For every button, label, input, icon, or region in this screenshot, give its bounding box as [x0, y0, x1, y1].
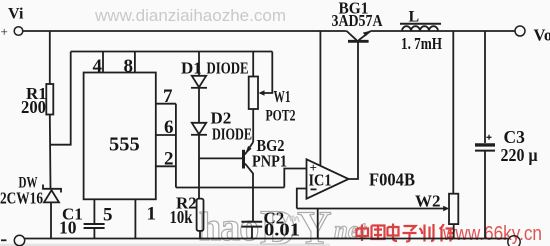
transistor BG1 bar — [348, 40, 369, 43]
transistor BG2 emitter — [245, 142, 253, 155]
minus sign bottom left — [1, 239, 7, 241]
svg-text:www.dianziaihaozhe.com: www.dianziaihaozhe.com — [94, 6, 286, 25]
wire bus to +input — [284, 169, 306, 188]
svg-text:6: 6 — [164, 117, 174, 138]
wire top rail right — [371, 30, 515, 32]
svg-text:8: 8 — [124, 56, 134, 77]
inductor L coil — [402, 26, 438, 31]
svg-text:Vi: Vi — [8, 6, 24, 23]
wire to W2 wiper — [297, 208, 447, 210]
svg-text:220 μ: 220 μ — [501, 145, 538, 165]
C3 polarity + — [487, 135, 492, 140]
terminal Vo — [515, 26, 525, 36]
wire zener to ground rail — [50, 202, 52, 238]
wire W1 to BG2 emitter — [252, 109, 254, 142]
svg-text:Vo: Vo — [534, 26, 550, 45]
wire W1 wiper — [262, 52, 272, 94]
IC 555 box — [84, 73, 156, 200]
svg-text:5: 5 — [103, 205, 113, 226]
terminal bottom-left - — [14, 235, 24, 245]
wire D1-D2 — [198, 88, 200, 123]
zener DW — [43, 185, 61, 193]
wire BG2 base — [199, 157, 242, 159]
wire pin6 stub — [156, 134, 176, 136]
char guo — [372, 226, 385, 240]
svg-text:C3: C3 — [504, 127, 526, 147]
watermark squiggle — [286, 216, 299, 222]
svg-text:DIODE: DIODE — [207, 59, 249, 78]
svg-text:POT2: POT2 — [266, 108, 296, 125]
terminal Vi + — [14, 27, 23, 36]
wire op-amp output to BG1 base — [349, 43, 358, 180]
wire R1 to zener — [49, 115, 52, 189]
wire vcc bus — [71, 51, 273, 53]
svg-text:1: 1 — [147, 204, 157, 225]
svg-text:4: 4 — [93, 56, 103, 77]
op-amp IC1 — [307, 159, 349, 198]
capacitor C3 — [475, 143, 495, 146]
wire bottom rail — [25, 238, 508, 240]
svg-text:2CW16: 2CW16 — [0, 189, 43, 208]
char zhi — [420, 224, 434, 242]
wire pin2 stub — [156, 165, 176, 167]
transistor BG2 collector — [245, 164, 253, 222]
transistor BG1 emitter — [347, 31, 357, 40]
svg-text:PNP1: PNP1 — [252, 152, 287, 171]
wire W2 top — [452, 31, 454, 194]
resistor R1 — [46, 84, 53, 115]
svg-text:hao: hao — [199, 204, 258, 246]
char dian — [388, 224, 399, 242]
wire C3 bottom — [484, 152, 486, 239]
svg-text:+: + — [1, 24, 8, 39]
svg-text:F004B: F004B — [369, 170, 415, 190]
wire W1 top — [252, 52, 254, 77]
wire C3 top — [484, 31, 486, 143]
svg-text:7: 7 — [163, 86, 173, 107]
svg-text:3AD57A: 3AD57A — [332, 11, 384, 30]
wire feedback bus — [176, 187, 284, 189]
wire pin bus vertical — [175, 104, 177, 188]
capacitor C2 — [241, 222, 262, 227]
wire C2 to ground rail — [251, 227, 253, 239]
wire pin5 to C1 — [93, 199, 95, 224]
svg-text:W2: W2 — [415, 192, 441, 211]
wire top rail left — [23, 30, 347, 32]
wire op-amp V+ — [319, 31, 321, 166]
transistor BG1 collector — [359, 31, 371, 40]
wire pin1 to ground rail — [134, 199, 136, 238]
op-amp minus sign — [311, 188, 317, 190]
wire vcc jog — [50, 52, 70, 145]
potentiometer W2 body — [449, 194, 458, 224]
char zi — [403, 226, 417, 242]
wire pin8 stub — [134, 52, 136, 73]
terminal bottom-right — [508, 236, 520, 246]
svg-text:0.01: 0.01 — [264, 220, 300, 240]
svg-text:10k: 10k — [170, 207, 193, 227]
char zuo — [440, 224, 455, 242]
watermark red chinese 中国电子制作 — [357, 224, 455, 242]
svg-text:555: 555 — [109, 134, 140, 156]
svg-text:www.66ky.cn: www.66ky.cn — [442, 223, 542, 245]
svg-text:D1: D1 — [181, 59, 202, 78]
diode D1 — [192, 76, 206, 87]
resistor R2 — [197, 199, 204, 231]
wire pin7 stub — [156, 103, 176, 105]
capacitor C1 — [84, 224, 105, 228]
svg-text:2: 2 — [164, 149, 174, 170]
wire op-amp ground — [317, 209, 319, 239]
svg-text:DIODE: DIODE — [212, 125, 252, 144]
wire R2 to ground rail — [199, 231, 201, 239]
svg-text:L: L — [409, 9, 420, 26]
inductor L core bar — [400, 23, 441, 25]
svg-text:200: 200 — [21, 97, 46, 117]
potentiometer W1 body — [249, 77, 258, 110]
wire -input — [297, 189, 307, 209]
wire D2 to R2 — [198, 135, 200, 199]
wire R1 branch top — [49, 31, 51, 84]
char zhong — [357, 225, 369, 242]
watermark bottom haoDIY — [199, 199, 367, 246]
wire D1 anode — [198, 52, 200, 76]
transistor BG2 bar — [242, 150, 245, 169]
wire pin4 stub — [102, 52, 104, 73]
wire C1 to ground rail — [93, 228, 95, 239]
scan smudge bottom — [0, 244, 330, 246]
svg-text:10: 10 — [59, 218, 77, 238]
svg-text:1. 7mH: 1. 7mH — [401, 34, 442, 53]
wire W2 bottom — [453, 224, 455, 238]
svg-text:W1: W1 — [274, 87, 291, 106]
diode D2 — [192, 123, 206, 134]
svg-text:+: + — [310, 160, 317, 175]
